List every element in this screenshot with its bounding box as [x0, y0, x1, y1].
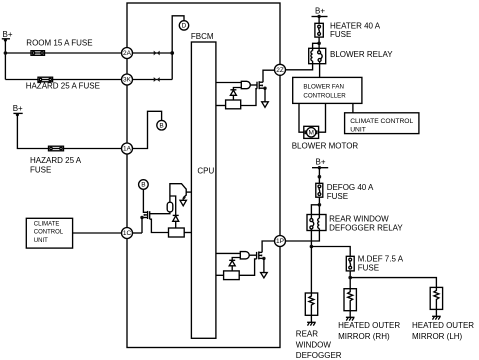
fuse HAZARD 25A (lower): [49, 146, 64, 151]
node 1C: [122, 228, 133, 239]
wire B+3 to heater fuse: [318, 17, 320, 24]
connector B circle (lower): [139, 180, 149, 190]
wire U1 output to Q1 gate: [250, 84, 257, 86]
wire controller to climate unit: [352, 103, 354, 112]
ground (left internal): [180, 200, 186, 206]
svg-text:HEATER 40 A: HEATER 40 A: [330, 21, 381, 30]
svg-text:B+: B+: [315, 6, 325, 15]
wire B+2 to 1A: [17, 113, 121, 148]
svg-text:HAZARD 25 A FUSE: HAZARD 25 A FUSE: [26, 82, 100, 91]
svg-text:2Z: 2Z: [276, 67, 284, 74]
svg-text:3K: 3K: [123, 77, 132, 84]
wire junction to rear window defogger element: [310, 247, 312, 294]
FBCM module box: [127, 3, 280, 348]
svg-text:DEFOGGER RELAY: DEFOGGER RELAY: [329, 223, 403, 232]
wire B to Q3 drain: [143, 189, 147, 212]
svg-text:CLIMATE CONTROL: CLIMATE CONTROL: [350, 118, 413, 125]
svg-text:UNIT: UNIT: [350, 127, 366, 134]
defogger relay switch: [310, 215, 314, 231]
svg-text:FUSE: FUSE: [30, 165, 51, 174]
ground (bottom internal): [261, 273, 268, 278]
svg-text:WINDOW: WINDOW: [296, 340, 332, 349]
blower relay coil: [311, 48, 313, 63]
svg-text:2A: 2A: [123, 50, 132, 57]
wire branch to relay coil: [313, 43, 320, 48]
CPU box: [191, 42, 216, 338]
B+ terminal 4 (defog): [312, 166, 328, 169]
wire relay switch down: [310, 231, 312, 247]
diode D2: [229, 260, 235, 266]
svg-text:1P: 1P: [276, 238, 284, 245]
svg-text:MIRROR (LH): MIRROR (LH): [412, 332, 463, 341]
svg-text:FBCM: FBCM: [191, 32, 214, 41]
svg-text:B: B: [159, 122, 163, 129]
wire U2 output to Q2 gate: [249, 254, 256, 256]
wire R3 to CPU: [184, 232, 191, 234]
wire 1C to Q3: [133, 232, 143, 234]
B+ terminal 1 (top left): [2, 38, 10, 41]
junction dot above blower relay: [317, 42, 321, 46]
rear window defogger element: [305, 293, 317, 315]
wire Q3 gate to thermistor TH: [150, 212, 170, 214]
svg-text:M: M: [308, 130, 313, 137]
junction dot above defogger relay: [318, 203, 322, 207]
wire controller to motor (left): [299, 103, 304, 132]
wire junction to M.DEF fuse: [311, 247, 350, 257]
svg-text:B+: B+: [316, 157, 326, 166]
svg-text:HEATED OUTER: HEATED OUTER: [338, 321, 400, 330]
wire D1 to resistor R1: [232, 95, 234, 100]
node 1P: [275, 236, 286, 247]
wire D2 to resistor R2: [231, 266, 233, 271]
wire CPU to R2: [216, 274, 224, 276]
diode D3: [173, 215, 179, 221]
wire Q1 source to ground: [264, 88, 266, 102]
wire capsule line to diode D3: [170, 196, 176, 215]
svg-text:DEFOG 40 A: DEFOG 40 A: [327, 183, 374, 192]
wire R2 to Q2 gate bottom: [239, 259, 256, 275]
svg-text:ROOM 15 A FUSE: ROOM 15 A FUSE: [26, 39, 92, 48]
svg-text:CPU: CPU: [197, 166, 214, 175]
junction dot on defog feed: [318, 175, 322, 179]
driver gate U2: [240, 252, 249, 259]
wire fuse down to junction: [349, 271, 351, 289]
transistor Q1 (MOSFET): [257, 81, 267, 90]
svg-text:FUSE: FUSE: [358, 264, 379, 273]
node 2Z: [275, 64, 286, 75]
fuse HEATER 40A: [315, 23, 323, 37]
motor BLOWER MOTOR: [304, 126, 319, 138]
transistor Q3 (MOSFET mirrored): [140, 211, 149, 219]
svg-text:M.DEF 7.5 A: M.DEF 7.5 A: [358, 255, 404, 264]
junction dot below M.DEF fuse: [348, 276, 352, 280]
node 1A: [122, 143, 133, 154]
BLOWER FAN CONTROLLER box: [293, 77, 362, 103]
B+ terminal 3 (heater): [312, 15, 328, 18]
wire relay switch to blower fan controller: [319, 64, 321, 78]
wire fuse to blower relay: [318, 37, 320, 48]
wire to connector D: [172, 16, 184, 80]
svg-text:CLIMATE: CLIMATE: [34, 221, 60, 227]
wire U2 lower input to diode D2: [232, 258, 240, 261]
svg-text:D: D: [182, 23, 187, 30]
svg-text:BLOWER RELAY: BLOWER RELAY: [330, 50, 393, 59]
wire 1A to connector B: [133, 111, 162, 148]
wire 2A to junction: [133, 52, 173, 54]
CLIMATE CONTROL UNIT box (right): [345, 113, 419, 134]
svg-text:DEFOGGER: DEFOGGER: [296, 351, 342, 360]
svg-text:1C: 1C: [123, 230, 132, 237]
wire U1 lower input to diode D1: [233, 88, 241, 90]
resistor R2: [224, 271, 240, 280]
wire climate to 1C: [73, 232, 122, 234]
svg-text:UNIT: UNIT: [34, 238, 48, 244]
node 2A: [122, 48, 133, 59]
wire Q3 source to 1C: [141, 218, 143, 234]
wire B+4 to defog fuse: [318, 168, 320, 184]
wire HAZARD fuse feed: [5, 79, 121, 81]
wire capsule to Q4 collector: [170, 184, 186, 203]
junction dot below relay: [310, 245, 314, 249]
wire D3 to resistor R3: [175, 221, 177, 228]
transistor Q2 (MOSFET): [257, 251, 266, 260]
wire 3K to junction: [133, 79, 173, 81]
fuse HAZARD 25A (upper): [38, 77, 53, 82]
wire Q2 drain to node 1P: [262, 241, 274, 252]
fuse ROOM 15A: [31, 51, 45, 56]
resistor R1: [226, 100, 241, 109]
connector D circle: [179, 21, 188, 30]
wire controller to motor (right): [319, 103, 326, 132]
wire CPU to R1: [216, 105, 226, 107]
wire Q2 source to ground: [263, 258, 265, 272]
svg-text:MIRROR (RH): MIRROR (RH): [338, 332, 390, 341]
svg-text:B+: B+: [3, 30, 13, 39]
ground (rear window defogger): [307, 315, 316, 325]
connector mark on 3K wire: [154, 77, 160, 82]
heated outer mirror RH element: [344, 289, 356, 311]
fuse M.DEF 7.5A: [346, 256, 354, 271]
wire Q1 drain to node 2Z: [263, 70, 275, 82]
junction dot D-line: [170, 51, 174, 55]
junction at ROOM wire: [4, 51, 8, 55]
svg-text:BLOWER MOTOR: BLOWER MOTOR: [292, 142, 359, 151]
svg-text:B+: B+: [13, 104, 23, 113]
connector B circle (upper): [157, 120, 167, 130]
wire Q3 gate-foot to R3: [150, 219, 169, 232]
wire relay coil to 1P: [286, 231, 320, 242]
wire CPU to driver U2: [216, 252, 240, 254]
svg-text:CONTROLLER: CONTROLLER: [303, 93, 346, 100]
blower relay switch: [318, 48, 323, 63]
wire branch to relay switch: [311, 205, 319, 215]
thermistor capsule: [167, 202, 173, 212]
svg-text:FUSE: FUSE: [327, 192, 348, 201]
connector mark on 2A wire: [154, 51, 160, 56]
wire ROOM fuse feed: [5, 52, 121, 54]
wire CPU to driver U1: [216, 82, 241, 84]
transistor Q4 (BJT): [183, 189, 191, 200]
relay BLOWER RELAY box: [309, 48, 326, 63]
fuse DEFOG 40A: [316, 183, 323, 197]
svg-text:B: B: [141, 182, 145, 189]
svg-text:1A: 1A: [123, 146, 132, 153]
CLIMATE CONTROL UNIT box (left): [26, 218, 72, 248]
wire relay coil to 2Z: [286, 64, 313, 70]
ground (LH mirror): [432, 309, 441, 319]
driver gate U1: [241, 81, 250, 88]
node 3K: [122, 74, 133, 85]
ground (top internal): [262, 102, 269, 108]
svg-text:REAR: REAR: [296, 330, 318, 339]
wire B+1 vertical: [4, 39, 6, 80]
B+ terminal 2 (left, hazard): [13, 113, 22, 116]
svg-text:REAR WINDOW: REAR WINDOW: [329, 214, 389, 223]
diode D1: [230, 90, 236, 96]
svg-text:FUSE: FUSE: [330, 30, 351, 39]
wire fuse to defogger relay: [318, 197, 320, 214]
svg-text:CONTROL: CONTROL: [34, 230, 64, 236]
wire to LH mirror: [350, 278, 436, 288]
relay REAR WINDOW DEFOGGER RELAY box: [307, 215, 326, 231]
svg-text:BLOWER FAN: BLOWER FAN: [303, 83, 344, 90]
resistor R3: [169, 228, 185, 237]
defogger relay coil: [318, 215, 320, 231]
svg-text:HEATED OUTER: HEATED OUTER: [412, 321, 474, 330]
wire R1 to Q1 gate bottom: [241, 89, 257, 106]
wire Q4 emitter to ground: [182, 198, 184, 201]
ground (RH mirror): [346, 311, 355, 321]
heated outer mirror LH element: [430, 287, 442, 309]
svg-text:HAZARD 25 A: HAZARD 25 A: [30, 156, 82, 165]
